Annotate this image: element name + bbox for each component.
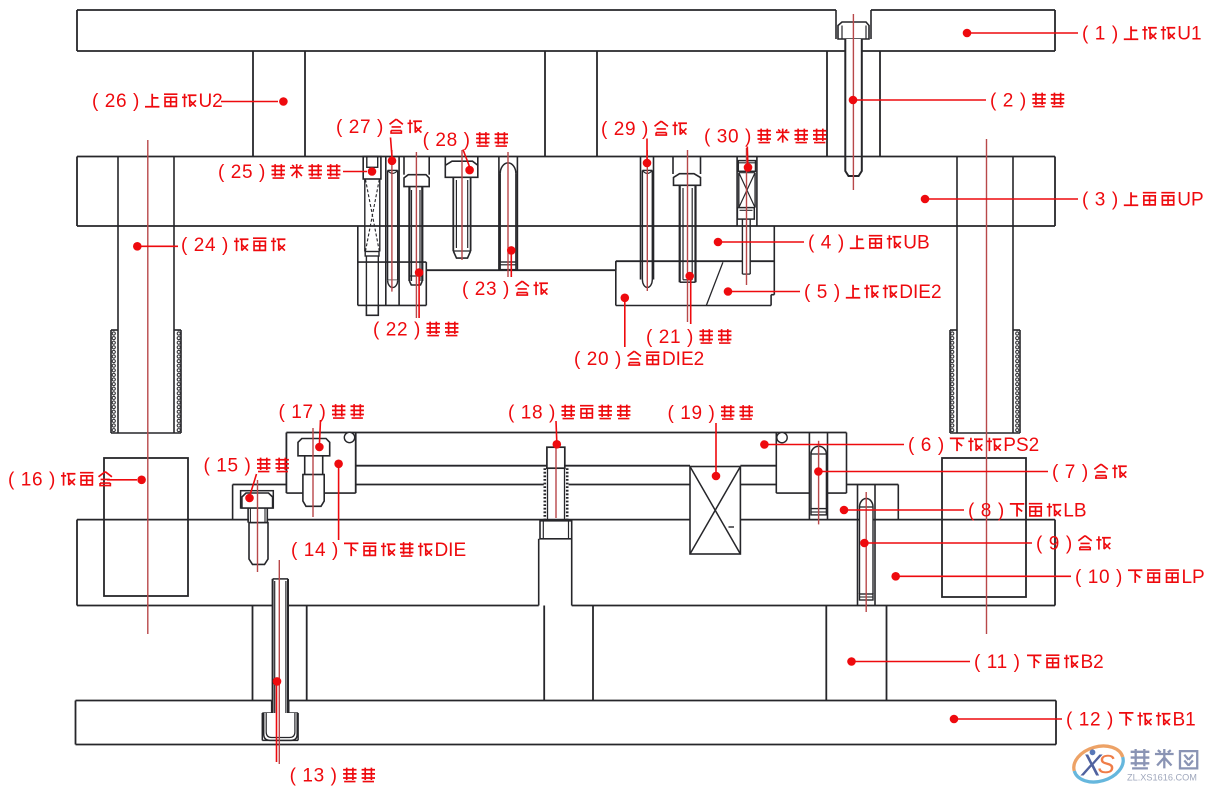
svg-text:LB: LB xyxy=(1063,501,1086,522)
svg-text:UP: UP xyxy=(1177,190,1203,211)
svg-text:ZL.XS1616.COM: ZL.XS1616.COM xyxy=(1127,773,1197,783)
svg-text:( 30 ): ( 30 ) xyxy=(704,127,752,148)
svg-text:( 4 ): ( 4 ) xyxy=(808,233,845,254)
svg-text:( 14 ): ( 14 ) xyxy=(291,540,339,561)
svg-text:( 29 ): ( 29 ) xyxy=(601,119,649,140)
svg-text:U1: U1 xyxy=(1177,24,1201,45)
svg-text:( 17 ): ( 17 ) xyxy=(279,402,327,423)
svg-text:LP: LP xyxy=(1181,567,1204,588)
svg-text:( 26 ): ( 26 ) xyxy=(92,91,140,112)
svg-text:( 3 ): ( 3 ) xyxy=(1082,190,1119,211)
svg-text:( 16 ): ( 16 ) xyxy=(8,470,56,491)
svg-text:( 19 ): ( 19 ) xyxy=(668,403,716,424)
svg-text:DIE: DIE xyxy=(434,540,466,561)
svg-text:( 18 ): ( 18 ) xyxy=(508,403,556,424)
svg-text:( 7 ): ( 7 ) xyxy=(1052,462,1089,483)
svg-text:( 15 ): ( 15 ) xyxy=(204,456,252,477)
svg-text:( 21 ): ( 21 ) xyxy=(646,327,694,348)
svg-text:( 11 ): ( 11 ) xyxy=(974,652,1021,673)
svg-text:( 24 ): ( 24 ) xyxy=(181,235,229,256)
svg-text:( 9 ): ( 9 ) xyxy=(1036,534,1073,555)
svg-text:( 12 ): ( 12 ) xyxy=(1066,710,1114,731)
svg-text:( 6 ): ( 6 ) xyxy=(908,435,945,456)
svg-text:PS2: PS2 xyxy=(1003,435,1039,456)
svg-text:( 28 ): ( 28 ) xyxy=(423,130,471,151)
svg-text:( 2 ): ( 2 ) xyxy=(990,91,1027,112)
svg-text:( 23 ): ( 23 ) xyxy=(462,279,510,300)
svg-text:( 10 ): ( 10 ) xyxy=(1075,567,1123,588)
svg-text:B1: B1 xyxy=(1172,710,1195,731)
svg-text:( 1 ): ( 1 ) xyxy=(1082,24,1119,45)
svg-text:( 25 ): ( 25 ) xyxy=(218,162,266,183)
svg-text:DIE2: DIE2 xyxy=(662,349,704,370)
svg-text:( 20 ): ( 20 ) xyxy=(574,349,622,370)
svg-text:UB: UB xyxy=(903,233,929,254)
svg-text:( 22 ): ( 22 ) xyxy=(373,320,421,341)
svg-text:( 27 ): ( 27 ) xyxy=(336,117,384,138)
svg-text:DIE2: DIE2 xyxy=(899,282,941,303)
svg-text:S: S xyxy=(1098,749,1116,779)
svg-text:( 13 ): ( 13 ) xyxy=(290,766,338,787)
svg-text:B2: B2 xyxy=(1080,652,1103,673)
svg-text:( 5 ): ( 5 ) xyxy=(804,282,841,303)
svg-text:U2: U2 xyxy=(198,91,222,112)
svg-text:( 8 ): ( 8 ) xyxy=(968,501,1005,522)
